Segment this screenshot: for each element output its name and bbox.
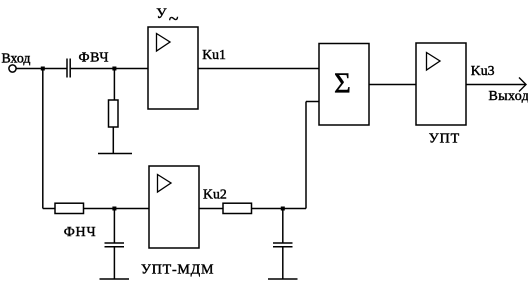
wire: capacitor C1 to amplifier U1 (71, 68, 148, 70)
amplifier symbol triangle in U2 (158, 175, 172, 193)
svg-text:Ku1: Ku1 (202, 47, 226, 62)
svg-text:~: ~ (169, 9, 179, 29)
amplifier symbol triangle in U1 (157, 34, 171, 52)
amplifier symbol triangle in U3 (427, 53, 441, 71)
node C: junction to shunt capacitor C2 (112, 207, 116, 211)
input terminal (Вход) (9, 65, 16, 72)
svg-text:Ku2: Ku2 (203, 187, 227, 202)
resistor R3 (series, after U2) (223, 203, 252, 213)
wire: capacitor C3 to ground bar (282, 247, 284, 279)
svg-text:Σ: Σ (334, 67, 351, 99)
wire: resistor R3 to corner (252, 208, 307, 210)
ground (termination bar under R1) (98, 153, 132, 155)
wire: resistor R2 to amplifier U2 (84, 208, 150, 210)
wire: node D down to capacitor C3 (282, 209, 284, 244)
op-amp U3 (УПТ, Ku3) (416, 43, 466, 125)
svg-text:Выход: Выход (489, 89, 528, 104)
wire: input terminal to capacitor C1 (16, 68, 66, 70)
wire: into summer S1 lower input (306, 101, 319, 103)
svg-text:У: У (156, 6, 167, 22)
wire: node A down the lower branch (42, 69, 44, 209)
wire: capacitor C2 to ground bar (113, 247, 115, 279)
ground (termination bar under C3) (268, 278, 298, 280)
op-amp U2 (УПТ-МДМ, Ku2) (149, 166, 199, 248)
svg-text:УПТ-МДМ: УПТ-МДМ (141, 263, 214, 278)
svg-text:Ku3: Ku3 (471, 63, 495, 78)
svg-text:УПТ: УПТ (429, 131, 460, 146)
wire: corner to resistor R2 (43, 208, 55, 210)
wire: summer S1 output to amplifier U3 (369, 84, 416, 86)
wire: U2 output to resistor R3 (199, 208, 223, 210)
arrowhead of output wire (519, 78, 526, 92)
svg-text:Вход: Вход (2, 50, 31, 65)
wire: node B down to resistor R1 (113, 69, 115, 101)
wire: resistor R1 to ground bar (112, 127, 114, 153)
resistor R1 (shunt, vertical) (109, 100, 119, 127)
wire: U3 output (Выход) with arrow (466, 84, 526, 86)
wire: node C down to capacitor C2 (113, 209, 115, 244)
capacitor C3 (shunt) (273, 243, 293, 247)
node D: junction to shunt capacitor C3 (281, 207, 285, 211)
svg-text:ФНЧ: ФНЧ (64, 225, 97, 240)
capacitor C1 (series, ФВЧ path) (67, 59, 70, 78)
summer S1 (Σ) (319, 44, 369, 126)
svg-text:ФВЧ: ФВЧ (79, 50, 110, 65)
wire: lower branch up to summer S1 second input (305, 102, 307, 209)
node B: junction to shunt resistor R1 (112, 67, 116, 71)
resistor R2 (series, ФНЧ path) (55, 203, 84, 213)
capacitor C2 (shunt) (105, 243, 125, 247)
wire: U1 output to summer S1 (198, 68, 319, 70)
op-amp U1 (AC amplifier, Ku1) (148, 27, 198, 109)
node A: input junction (41, 67, 45, 71)
ground (termination bar under C2) (100, 278, 130, 280)
